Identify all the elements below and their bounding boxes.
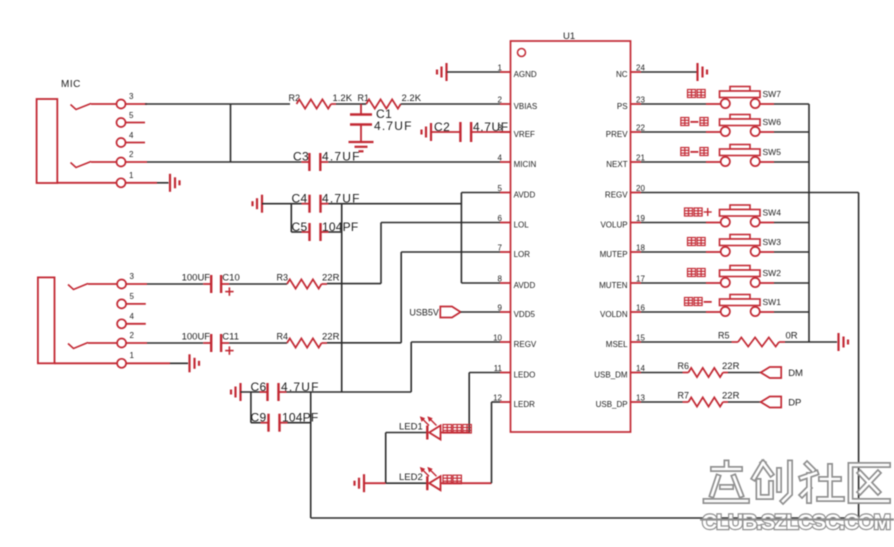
svg-text:19: 19 xyxy=(636,214,645,223)
jack pin 3 xyxy=(117,100,126,109)
svg-text:4.7UF: 4.7UF xyxy=(374,119,413,133)
label LED2 lamp xyxy=(443,475,452,484)
pin 5 AVDD xyxy=(500,192,511,194)
pin 13 USB_DP xyxy=(631,401,642,403)
svg-text:12: 12 xyxy=(493,394,502,403)
svg-text:14: 14 xyxy=(636,364,645,373)
switch SW2 xyxy=(730,266,750,271)
capacitor C4 xyxy=(302,203,310,205)
pin 12 LEDR xyxy=(500,401,511,403)
svg-text:16: 16 xyxy=(636,304,645,313)
switch SW7 xyxy=(730,87,750,92)
svg-text:VREF: VREF xyxy=(514,130,535,139)
label SW6 chinese xyxy=(681,118,689,126)
jack2 switch contact pin2 xyxy=(68,343,88,349)
svg-text:3: 3 xyxy=(129,92,134,101)
wire R2 to R1 xyxy=(331,103,336,105)
wire switch bus vertical xyxy=(808,104,810,342)
node junction x230 xyxy=(230,104,232,162)
svg-text:NC: NC xyxy=(616,70,628,79)
svg-text:C10: C10 xyxy=(222,273,239,284)
svg-text:5: 5 xyxy=(130,292,135,301)
wire LED2 to pin12 vertical xyxy=(441,482,492,484)
label SW4 chinese xyxy=(685,208,693,216)
wire SW4 to bus xyxy=(774,222,809,224)
pin 17 MUTEN xyxy=(631,282,642,284)
ground C6 xyxy=(239,383,241,401)
svg-text:SW5: SW5 xyxy=(763,147,782,157)
svg-text:R7: R7 xyxy=(678,391,690,401)
jack pin 1 xyxy=(117,178,126,187)
ground jack2 pin1 xyxy=(188,354,190,372)
pin 16 VOLDN xyxy=(631,311,642,313)
svg-text:LEDO: LEDO xyxy=(514,371,536,380)
jack2 pin 1 xyxy=(117,359,126,368)
pin 10 REGV xyxy=(500,341,511,343)
svg-text:15: 15 xyxy=(636,334,645,343)
svg-text:2: 2 xyxy=(498,96,503,105)
wire SW7 to bus xyxy=(774,103,809,105)
wire U1 to switch SW2 xyxy=(641,282,706,284)
svg-text:MUTEN: MUTEN xyxy=(599,281,628,290)
wire U1 to switch SW1 xyxy=(641,311,706,313)
wire vertical REGV net xyxy=(341,204,343,392)
svg-text:13: 13 xyxy=(636,394,645,403)
wire U1 to switch SW4 xyxy=(641,222,706,224)
ground C4 xyxy=(261,195,263,213)
capacitor C2 xyxy=(459,122,461,142)
wire U1 pin20 REGV to right bus xyxy=(641,192,859,194)
svg-text:0R: 0R xyxy=(786,331,798,342)
svg-text:LED2: LED2 xyxy=(399,472,423,483)
wire R3 to LOL vertical xyxy=(322,283,328,285)
svg-text:R4: R4 xyxy=(277,332,289,342)
svg-text:2: 2 xyxy=(130,331,135,340)
wire ground to C4 xyxy=(262,203,302,205)
svg-text:VOLDN: VOLDN xyxy=(600,310,628,319)
wire to U1 pin7 LOR xyxy=(401,251,500,253)
wire vertical LED1 to LED2 row xyxy=(385,433,387,484)
wire ground to C6 xyxy=(241,391,260,393)
svg-text:8: 8 xyxy=(498,275,503,284)
wire vertical pin11 to LED1 xyxy=(468,373,470,433)
svg-text:C3: C3 xyxy=(293,150,309,164)
svg-text:REGV: REGV xyxy=(514,340,537,349)
svg-text:18: 18 xyxy=(636,244,645,253)
op-amp U1 MP3 decoder IC body xyxy=(511,41,631,432)
wire junction down to C5 xyxy=(290,204,292,232)
svg-text:1.2K: 1.2K xyxy=(333,93,353,104)
switch SW6 xyxy=(730,115,750,120)
pin 4 MICIN xyxy=(500,161,511,163)
svg-text:100UF: 100UF xyxy=(182,332,211,343)
wire U1 pin15 MSEL to R5 xyxy=(641,341,732,343)
wire C3 to U1 pin4 MICIN xyxy=(328,161,500,163)
svg-text:LOL: LOL xyxy=(514,221,530,230)
connector jack2 body xyxy=(38,277,55,363)
wire U1 to switch SW7 xyxy=(641,103,706,105)
pin 11 LEDO xyxy=(500,372,511,374)
svg-text:MSEL: MSEL xyxy=(606,340,628,349)
svg-text:USB_DP: USB_DP xyxy=(596,400,628,409)
pin 19 VOLUP xyxy=(631,222,642,224)
wire U1 pin11 LEDO xyxy=(469,372,500,374)
svg-text:4: 4 xyxy=(130,312,135,321)
svg-text:22R: 22R xyxy=(722,361,740,372)
svg-text:VDD5: VDD5 xyxy=(514,310,536,319)
svg-text:1: 1 xyxy=(129,171,134,180)
pin 1 AGND xyxy=(500,71,511,73)
svg-text:21: 21 xyxy=(636,154,645,163)
svg-text:11: 11 xyxy=(494,364,503,373)
svg-text:9: 9 xyxy=(498,304,503,313)
svg-text:REGV: REGV xyxy=(605,191,628,200)
svg-text:1: 1 xyxy=(498,64,503,73)
svg-text:PS: PS xyxy=(617,102,628,111)
pin 24 NC xyxy=(631,71,642,73)
svg-text:10: 10 xyxy=(493,334,502,343)
wire SW1 to bus xyxy=(774,311,809,313)
connector MIC jack body xyxy=(37,99,58,183)
jack switch contact pin2 xyxy=(71,162,92,168)
wire vertical R4 to LOR row xyxy=(400,252,402,343)
wire R1 to U1 pin2 xyxy=(401,103,500,105)
wire SW2 to bus xyxy=(774,282,809,284)
svg-text:SW1: SW1 xyxy=(763,297,782,307)
ground C1 xyxy=(349,141,374,143)
wire U1 pin24 to ground xyxy=(641,71,697,73)
svg-text:23: 23 xyxy=(636,96,645,105)
svg-text:SW3: SW3 xyxy=(763,237,782,247)
svg-text:R3: R3 xyxy=(277,273,289,283)
wire C6 to REGV pin10 vertical xyxy=(287,391,412,393)
svg-text:4: 4 xyxy=(498,154,503,163)
wire to U1 pin8 xyxy=(461,282,500,284)
svg-text:PREV: PREV xyxy=(606,130,628,139)
svg-text:17: 17 xyxy=(636,275,645,284)
wire U1 pin13 to R7 xyxy=(641,401,683,403)
pin 7 LOR xyxy=(500,251,511,253)
wire ground to LED2 xyxy=(364,482,386,484)
svg-text:U1: U1 xyxy=(563,31,575,42)
wire ground to U1 pin1 xyxy=(447,71,500,73)
wire USB5V to U1 pin9 xyxy=(461,311,500,313)
svg-text:SW4: SW4 xyxy=(763,208,782,218)
wire C9 to bottom bus vertical xyxy=(288,422,311,424)
pin 18 MUTEP xyxy=(631,251,642,253)
wire R4 to LOR vertical xyxy=(322,342,328,344)
jack2 pin 2 xyxy=(117,339,126,348)
svg-text:SW6: SW6 xyxy=(763,117,782,127)
svg-text:LOR: LOR xyxy=(514,250,531,259)
label SW5 chinese xyxy=(681,148,689,156)
ground NC pin24 xyxy=(696,63,698,81)
capacitor C9 xyxy=(251,422,261,424)
wire vertical to bottom bus xyxy=(310,392,312,518)
svg-text:MUTEP: MUTEP xyxy=(600,250,628,259)
ground LEDs xyxy=(363,474,365,492)
jack pin 5 xyxy=(117,118,126,127)
wire jack2 body to pin1 xyxy=(55,362,118,364)
svg-text:DM: DM xyxy=(788,368,803,379)
svg-text:NEXT: NEXT xyxy=(606,160,627,169)
capacitor C5 xyxy=(291,231,301,233)
wire vertical AVDD pins 5-8 xyxy=(460,193,462,284)
svg-text:VOLUP: VOLUP xyxy=(600,221,627,230)
wire SW3 to bus xyxy=(774,251,809,253)
wire R5 to ground xyxy=(779,341,785,343)
svg-text:3: 3 xyxy=(130,272,135,281)
svg-text:AGND: AGND xyxy=(514,70,537,79)
svg-text:AVDD: AVDD xyxy=(514,281,536,290)
switch SW3 xyxy=(730,235,750,240)
wire C2 to U1 pin3 xyxy=(471,131,510,133)
svg-text:7: 7 xyxy=(498,244,503,253)
wire SW5 to bus xyxy=(774,161,809,163)
svg-text:AVDD: AVDD xyxy=(514,191,536,200)
wire right bus vertical xyxy=(858,193,860,519)
wire ground to C2 xyxy=(431,131,460,133)
label SW7 chinese xyxy=(688,90,696,98)
svg-text:C4: C4 xyxy=(292,192,308,206)
svg-text:100UF: 100UF xyxy=(182,273,211,284)
wire bottom bus xyxy=(311,517,859,519)
svg-text:DP: DP xyxy=(788,398,801,409)
wire U1 pin14 to R6 xyxy=(641,372,683,374)
svg-text:5: 5 xyxy=(498,184,503,193)
ground jack1 pin1 xyxy=(169,174,171,192)
svg-text:1: 1 xyxy=(130,351,135,360)
svg-text:C6: C6 xyxy=(251,380,267,394)
wire C10 to R3 xyxy=(229,283,287,285)
port DP xyxy=(761,397,782,408)
capacitor C1 xyxy=(360,104,362,115)
pin 2 VBIAS xyxy=(500,103,511,105)
svg-text:5: 5 xyxy=(129,111,134,120)
pin 21 NEXT xyxy=(631,161,642,163)
jack2 switch contact pin3 xyxy=(68,284,88,290)
wire jack2 pin1 to ground xyxy=(170,362,188,364)
svg-text:24: 24 xyxy=(636,64,645,73)
svg-text:LEDR: LEDR xyxy=(514,400,536,409)
wire U1 to switch SW6 xyxy=(641,131,706,133)
wire LED1 to pin11 vertical xyxy=(441,432,470,434)
wire vertical U1 pin10 REGV xyxy=(410,342,412,392)
svg-text:C9: C9 xyxy=(251,411,267,425)
wire U1 to switch SW3 xyxy=(641,251,706,253)
svg-text:VBIAS: VBIAS xyxy=(514,102,538,111)
switch SW1 xyxy=(730,295,750,300)
svg-text:MICIN: MICIN xyxy=(514,160,537,169)
ground C2 xyxy=(430,123,432,141)
label SW2 chinese xyxy=(688,269,696,277)
svg-text:MIC: MIC xyxy=(61,79,81,90)
svg-text:LED1: LED1 xyxy=(399,422,423,433)
pin 15 MSEL xyxy=(631,341,642,343)
watermark logo xyxy=(706,463,889,502)
wire C11 to R4 xyxy=(229,342,287,344)
jack2 pin 4 xyxy=(117,319,126,328)
ground AGND pin1 xyxy=(445,63,447,81)
svg-text:R5: R5 xyxy=(718,331,730,341)
capacitor C3 xyxy=(301,161,309,163)
svg-text:CLUB.SZLCSC.COM: CLUB.SZLCSC.COM xyxy=(702,511,890,534)
jack pin 4 xyxy=(117,138,126,147)
svg-text:22R: 22R xyxy=(722,391,740,402)
wire junction down to C9 xyxy=(250,392,252,423)
switch SW4 xyxy=(730,205,750,210)
svg-text:SW2: SW2 xyxy=(763,268,782,278)
svg-text:20: 20 xyxy=(636,184,645,193)
pin 9 VDD5 xyxy=(500,311,511,313)
svg-text:USB5V: USB5V xyxy=(409,308,439,318)
svg-text:22R: 22R xyxy=(322,273,340,284)
svg-text:C5: C5 xyxy=(292,220,308,234)
svg-text:2: 2 xyxy=(129,150,134,159)
pin 14 USB_DM xyxy=(631,372,642,374)
capacitor C6 xyxy=(260,391,268,393)
jack pin 2 xyxy=(117,158,126,167)
svg-text:C2: C2 xyxy=(434,120,450,134)
wire jack pin2 to C3 xyxy=(147,161,301,163)
port DM xyxy=(761,367,782,378)
svg-text:4: 4 xyxy=(129,131,134,140)
jack switch contact pin3 xyxy=(71,104,92,110)
wire to U1 pin10 xyxy=(411,341,500,343)
wire to U1 pin6 LOL xyxy=(381,222,500,224)
label SW1 chinese xyxy=(685,298,693,306)
wire vertical R3 to LOL row xyxy=(380,223,382,284)
label SW3 chinese xyxy=(688,238,696,246)
wire jack2 pin3 to C10 xyxy=(147,283,203,285)
pin 3 VREF xyxy=(500,131,511,133)
wire R7 to DP port xyxy=(723,401,728,403)
svg-text:22: 22 xyxy=(636,124,645,133)
svg-text:SW7: SW7 xyxy=(763,89,782,99)
svg-text:C11: C11 xyxy=(222,332,239,343)
label LED1 signal lamp xyxy=(443,425,452,434)
wire vertical LED2 to pin12 row xyxy=(491,402,493,483)
jack2 pin 5 xyxy=(117,299,126,308)
svg-text:USB_DM: USB_DM xyxy=(594,371,628,380)
pin 8 AVDD xyxy=(500,282,511,284)
wire U1 pin12 LEDR xyxy=(492,401,501,403)
svg-text:6: 6 xyxy=(498,214,503,223)
wire jack body to pin1 xyxy=(57,182,116,184)
svg-text:3: 3 xyxy=(498,124,503,133)
wire to U1 pin5 xyxy=(461,192,500,194)
switch SW5 xyxy=(730,145,750,150)
wire SW6 to bus xyxy=(774,131,809,133)
wire mic pin3 row xyxy=(145,103,290,105)
jack2 pin 3 xyxy=(117,280,126,289)
wire C5 to REGV vertical xyxy=(329,231,342,233)
pin 22 PREV xyxy=(631,131,642,133)
wire R6 to DM port xyxy=(723,372,728,374)
svg-text:R6: R6 xyxy=(678,361,690,371)
wire C4 to AVDD vertical xyxy=(329,203,462,205)
svg-text:2.2K: 2.2K xyxy=(402,93,422,104)
pin 6 LOL xyxy=(500,222,511,224)
wire pin1 to ground xyxy=(157,182,169,184)
pin 20 REGV xyxy=(631,192,642,194)
ground MSEL xyxy=(837,333,839,351)
pin 23 PS xyxy=(631,103,642,105)
wire U1 to switch SW5 xyxy=(641,161,706,163)
wire jack2 pin2 to C11 xyxy=(147,342,203,344)
svg-text:22R: 22R xyxy=(322,332,340,343)
